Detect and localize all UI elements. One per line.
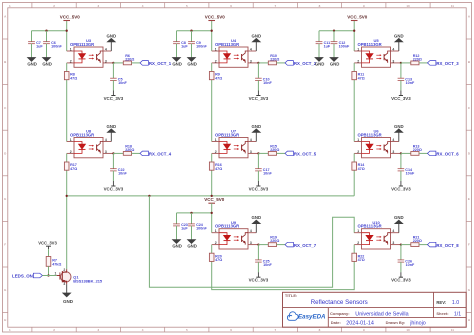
wire (49, 275, 57, 277)
net label RX_OCT_4 (140, 151, 172, 157)
wire (211, 21, 213, 51)
svg-text:OPB1113GR: OPB1113GR (215, 133, 239, 138)
capacitor C10 (255, 63, 272, 91)
wire (353, 21, 355, 51)
op-amp U8 OPB1113GR (67, 129, 114, 158)
svg-text:RX_OCT_2: RX_OCT_2 (294, 61, 317, 66)
junction (353, 30, 355, 32)
svg-text:VCC_3V3: VCC_3V3 (104, 96, 124, 101)
svg-text:2: 2 (215, 241, 217, 245)
junction (211, 30, 213, 32)
svg-text:100nF: 100nF (196, 227, 207, 231)
svg-text:4: 4 (105, 47, 107, 51)
svg-text:TITLE:: TITLE: (285, 293, 297, 298)
svg-text:H: H (468, 318, 470, 322)
ground (42, 58, 52, 67)
svg-text:220Ω: 220Ω (413, 148, 422, 152)
junction (257, 62, 259, 64)
svg-text:OPB1113GR: OPB1113GR (215, 224, 239, 229)
junction (112, 62, 114, 64)
wire column mid row2->bus (211, 170, 213, 196)
resistor R10 220R (258, 54, 285, 65)
svg-text:10nF: 10nF (406, 263, 415, 267)
svg-text:47Ω: 47Ω (70, 76, 77, 80)
wire horizontal bus (67, 195, 355, 197)
svg-text:10: 10 (406, 328, 410, 332)
svg-text:GND: GND (252, 124, 262, 129)
resistor R21 220R (401, 236, 428, 247)
svg-text:EasyEDA: EasyEDA (298, 313, 326, 320)
svg-text:1: 1 (357, 229, 359, 233)
op-amp U10 OPB1113GR (354, 220, 401, 249)
svg-text:E: E (468, 197, 470, 201)
svg-text:47Ω: 47Ω (358, 167, 365, 171)
svg-text:10nF: 10nF (263, 81, 272, 85)
svg-text:Sheet:: Sheet: (436, 311, 448, 316)
op-amp U3 OPB1113GR (67, 38, 114, 67)
resistor R9 47R (209, 63, 222, 81)
svg-text:RX_OCT_7: RX_OCT_7 (294, 243, 317, 248)
svg-text:VCC_3V3: VCC_3V3 (391, 278, 411, 283)
power flag VCC_3V3 (249, 91, 269, 102)
resistor R7 47k (46, 257, 61, 267)
junction (66, 30, 68, 32)
net label RX_OCT_7 (285, 242, 317, 248)
svg-text:1: 1 (357, 138, 359, 142)
svg-text:GND: GND (394, 215, 404, 220)
svg-text:1uF: 1uF (181, 227, 188, 231)
svg-text:3: 3 (250, 241, 252, 245)
svg-text:LEDS_ON: LEDS_ON (12, 273, 33, 278)
svg-text:1uF: 1uF (324, 44, 331, 48)
svg-text:OPB1113GR: OPB1113GR (357, 224, 381, 229)
wire column left row1->row2 (66, 80, 68, 142)
svg-text:1.0: 1.0 (452, 300, 459, 306)
resistor R8 47R (64, 63, 77, 81)
net label RX_OCT_6 (428, 151, 460, 157)
capacitor C22 (110, 153, 127, 181)
svg-text:RX_OCT_4: RX_OCT_4 (149, 152, 172, 157)
svg-text:1uF: 1uF (181, 44, 188, 48)
ground (107, 33, 117, 51)
svg-text:1/1: 1/1 (454, 312, 461, 318)
svg-text:VCC_5V0: VCC_5V0 (205, 14, 226, 19)
svg-text:GND: GND (252, 33, 262, 38)
svg-text:1: 1 (215, 229, 217, 233)
capacitor C6 (43, 31, 62, 58)
ground (187, 58, 197, 67)
svg-text:GND: GND (63, 299, 74, 304)
svg-text:10nF: 10nF (263, 172, 272, 176)
power flag VCC_3V3 (104, 91, 124, 102)
svg-text:100nF: 100nF (51, 44, 62, 48)
power flag VCC_3V3 (249, 181, 269, 192)
capacitor C5 (110, 63, 127, 91)
svg-text:47Ω: 47Ω (215, 258, 222, 262)
svg-text:RX_OCT_6: RX_OCT_6 (436, 152, 459, 157)
svg-text:VCC_5V0: VCC_5V0 (347, 14, 368, 19)
junction (190, 30, 192, 32)
capacitor C14 (398, 153, 415, 181)
ground (252, 124, 262, 142)
svg-text:4: 4 (250, 47, 252, 51)
resistor R11 47R (352, 63, 365, 81)
svg-text:10nF: 10nF (263, 263, 272, 267)
svg-text:GND: GND (42, 61, 52, 66)
svg-text:47Ω: 47Ω (215, 167, 222, 171)
svg-text:4: 4 (392, 229, 394, 233)
ground (172, 58, 182, 67)
svg-text:220Ω: 220Ω (270, 57, 279, 61)
svg-text:Drawn By:: Drawn By: (386, 320, 406, 325)
svg-text:H: H (4, 318, 6, 322)
svg-text:10nF: 10nF (406, 81, 415, 85)
svg-text:F: F (4, 243, 6, 247)
svg-text:GND: GND (187, 61, 197, 66)
svg-text:1uF: 1uF (36, 44, 43, 48)
op-amp U4 OPB1113GR (212, 38, 259, 67)
svg-text:2: 2 (70, 59, 72, 63)
wire (48, 266, 50, 275)
op-amp U7 OPB1113GR (212, 129, 259, 158)
svg-text:2: 2 (215, 59, 217, 63)
svg-text:VCC_5V0: VCC_5V0 (60, 14, 81, 19)
svg-text:RX_OCT_8: RX_OCT_8 (436, 243, 459, 248)
capacitor C25 (255, 245, 272, 273)
svg-text:1: 1 (357, 47, 359, 51)
svg-text:220Ω: 220Ω (413, 57, 422, 61)
svg-text:220Ω: 220Ω (413, 239, 422, 243)
junction (190, 212, 192, 214)
svg-text:OPB1113GR: OPB1113GR (357, 133, 381, 138)
resistor R13 220R (401, 144, 428, 155)
svg-text:2024-01-14: 2024-01-14 (346, 321, 374, 327)
svg-text:1: 1 (215, 138, 217, 142)
resistor R20 47R (209, 245, 222, 263)
svg-text:4: 4 (250, 138, 252, 142)
wire (42, 275, 48, 277)
svg-text:GND: GND (172, 244, 182, 249)
svg-text:2: 2 (63, 268, 65, 272)
svg-text:GND: GND (107, 124, 117, 129)
svg-text:4: 4 (250, 229, 252, 233)
svg-text:VCC_3V3: VCC_3V3 (104, 187, 124, 192)
svg-text:3: 3 (63, 282, 65, 286)
junction (400, 243, 402, 245)
ground (394, 33, 404, 51)
junction (333, 30, 335, 32)
junction (211, 195, 213, 197)
svg-text:2: 2 (215, 150, 217, 154)
capacitor C17 (255, 153, 272, 181)
svg-text:Company:: Company: (330, 311, 350, 316)
power flag VCC_3V3 (249, 272, 269, 283)
wire row3 vcc down (211, 213, 213, 233)
svg-text:1: 1 (70, 138, 72, 142)
svg-text:1: 1 (55, 272, 57, 276)
resistor R18 220R (113, 144, 140, 155)
svg-text:F: F (468, 243, 470, 247)
capacitor C7 (28, 31, 43, 58)
ground (27, 58, 37, 67)
capacitor C11 (316, 31, 331, 58)
power flag VCC_5V0 (205, 14, 226, 20)
junction (211, 212, 213, 214)
transistor Q1 BSS138BK_215 (55, 268, 103, 286)
net label LEDS_ON (12, 273, 42, 278)
svg-text:VCC_5V0: VCC_5V0 (204, 197, 225, 202)
svg-text:3: 3 (392, 150, 394, 154)
power flag VCC_3V3 (391, 91, 411, 102)
junction (257, 152, 259, 154)
svg-text:220Ω: 220Ω (270, 148, 279, 152)
junction (257, 243, 259, 245)
svg-text:3: 3 (105, 59, 107, 63)
svg-text:VCC_3V3: VCC_3V3 (391, 96, 411, 101)
resistor R6 220R (113, 54, 140, 65)
resistor R15 220R (258, 144, 285, 155)
capacitor C12 (331, 31, 350, 58)
svg-text:10: 10 (406, 4, 410, 8)
resistor R16 47R (209, 153, 222, 171)
svg-text:VCC_3V3: VCC_3V3 (391, 187, 411, 192)
capacitor C9 (188, 31, 207, 58)
junction (112, 152, 114, 154)
svg-text:10nF: 10nF (118, 81, 127, 85)
svg-text:4: 4 (392, 47, 394, 51)
svg-text:3: 3 (105, 150, 107, 154)
svg-text:47Ω: 47Ω (358, 76, 365, 80)
resistor R14 47R (352, 153, 365, 171)
wire (319, 30, 354, 32)
svg-text:OPB1113GR: OPB1113GR (215, 42, 239, 47)
svg-text:47Ω: 47Ω (215, 76, 222, 80)
svg-text:1: 1 (215, 47, 217, 51)
svg-text:220Ω: 220Ω (125, 148, 134, 152)
wire (32, 30, 67, 32)
svg-text:100nF: 100nF (196, 44, 207, 48)
title block (283, 292, 467, 327)
power flag VCC_5V0 (347, 14, 368, 20)
wire column mid row1->row2 (211, 80, 213, 142)
svg-text:E: E (4, 197, 6, 201)
svg-text:47kΩ: 47kΩ (52, 262, 61, 266)
svg-text:VCC_3V3: VCC_3V3 (38, 240, 57, 245)
capacitor C13 (398, 63, 415, 91)
svg-text:220Ω: 220Ω (270, 239, 279, 243)
ground (315, 58, 325, 67)
power flag VCC_3V3 (38, 240, 57, 249)
wire (66, 21, 68, 51)
svg-text:100nF: 100nF (339, 44, 350, 48)
net label RX_OCT_8 (428, 242, 460, 248)
svg-text:Reflectance Sensors: Reflectance Sensors (311, 299, 368, 306)
junction (45, 30, 47, 32)
svg-text:REV:: REV: (436, 300, 446, 305)
op-amp U9 OPB1113GR (212, 220, 259, 249)
ground (187, 240, 197, 249)
op-amp U5 OPB1113GR (354, 38, 401, 67)
svg-text:3: 3 (392, 241, 394, 245)
wire column left row2->Q1 drain (66, 170, 68, 269)
svg-text:BSS138BK_215: BSS138BK_215 (73, 279, 103, 284)
svg-text:10nF: 10nF (406, 172, 415, 176)
op-amp U6 OPB1113GR (354, 129, 401, 158)
svg-text:RX_OCT_5: RX_OCT_5 (294, 152, 317, 157)
net label RX_OCT_2 (285, 61, 317, 67)
svg-text:VCC_3V3: VCC_3V3 (249, 278, 269, 283)
ground (107, 124, 117, 142)
svg-text:GND: GND (315, 61, 325, 66)
power flag VCC_5V0 (204, 197, 225, 213)
svg-text:3: 3 (250, 150, 252, 154)
power flag VCC_5V0 (60, 14, 81, 20)
capacitor C23 (173, 213, 188, 240)
wire bus->bottom return (149, 196, 354, 287)
power flag VCC_3V3 (104, 181, 124, 192)
wire (177, 30, 212, 32)
svg-text:GND: GND (187, 244, 197, 249)
resistor R19 220R (258, 236, 285, 247)
junction (47, 274, 49, 276)
svg-text:3: 3 (250, 59, 252, 63)
ground (63, 284, 74, 304)
resistor R17 47R (64, 153, 77, 171)
svg-text:4: 4 (105, 138, 107, 142)
junction (400, 152, 402, 154)
junction (148, 195, 150, 197)
junction (400, 62, 402, 64)
power flag VCC_3V3 (391, 272, 411, 283)
svg-text:11: 11 (451, 4, 455, 8)
svg-text:GND: GND (252, 215, 262, 220)
svg-text:RX_OCT_3: RX_OCT_3 (436, 61, 459, 66)
wire column right row1->row2 (353, 80, 355, 142)
svg-text:3: 3 (392, 59, 394, 63)
svg-text:RX_OCT_1: RX_OCT_1 (149, 61, 172, 66)
wire (48, 249, 50, 256)
svg-text:47Ω: 47Ω (358, 258, 365, 262)
junction (66, 195, 68, 197)
svg-text:10nF: 10nF (118, 172, 127, 176)
svg-text:2: 2 (70, 150, 72, 154)
net label RX_OCT_3 (428, 61, 460, 67)
svg-text:4: 4 (392, 138, 394, 142)
net label RX_OCT_5 (285, 151, 317, 157)
ground (172, 240, 182, 249)
svg-text:11: 11 (451, 328, 455, 332)
ground (394, 215, 404, 233)
wire column right row2->bus (353, 170, 355, 196)
svg-text:GND: GND (394, 124, 404, 129)
svg-text:OPB1113GR: OPB1113GR (70, 42, 94, 47)
capacitor C26 (398, 245, 415, 273)
svg-text:Date:: Date: (331, 320, 341, 325)
wire row3 vcc caps (177, 212, 212, 214)
svg-text:GND: GND (394, 33, 404, 38)
svg-text:2: 2 (357, 150, 359, 154)
svg-text:220Ω: 220Ω (125, 57, 134, 61)
wire R20 to R22 return (212, 261, 355, 289)
svg-text:2: 2 (357, 59, 359, 63)
svg-text:VCC_3V3: VCC_3V3 (249, 187, 269, 192)
svg-text:GND: GND (27, 61, 37, 66)
svg-text:Universidad de Sevilla: Universidad de Sevilla (355, 312, 408, 318)
svg-text:GND: GND (172, 61, 182, 66)
svg-text:47Ω: 47Ω (70, 167, 77, 171)
svg-text:GND: GND (107, 33, 117, 38)
svg-text:OPB1113GR: OPB1113GR (70, 133, 94, 138)
capacitor C24 (188, 213, 207, 240)
resistor R22 47R (352, 245, 365, 263)
svg-text:2: 2 (357, 241, 359, 245)
svg-text:VCC_3V3: VCC_3V3 (249, 96, 269, 101)
svg-text:OPB1113GR: OPB1113GR (357, 42, 381, 47)
ground (394, 124, 404, 142)
svg-text:1: 1 (70, 47, 72, 51)
ground (330, 58, 340, 67)
svg-text:GND: GND (330, 61, 340, 66)
svg-text:jhinojo: jhinojo (409, 321, 426, 327)
EasyEDA logo (287, 312, 326, 321)
net label RX_OCT_1 (140, 61, 172, 67)
ground (252, 215, 262, 233)
capacitor C8 (173, 31, 188, 58)
power flag VCC_3V3 (391, 181, 411, 192)
ground (252, 33, 262, 51)
resistor R12 220R (401, 54, 428, 65)
